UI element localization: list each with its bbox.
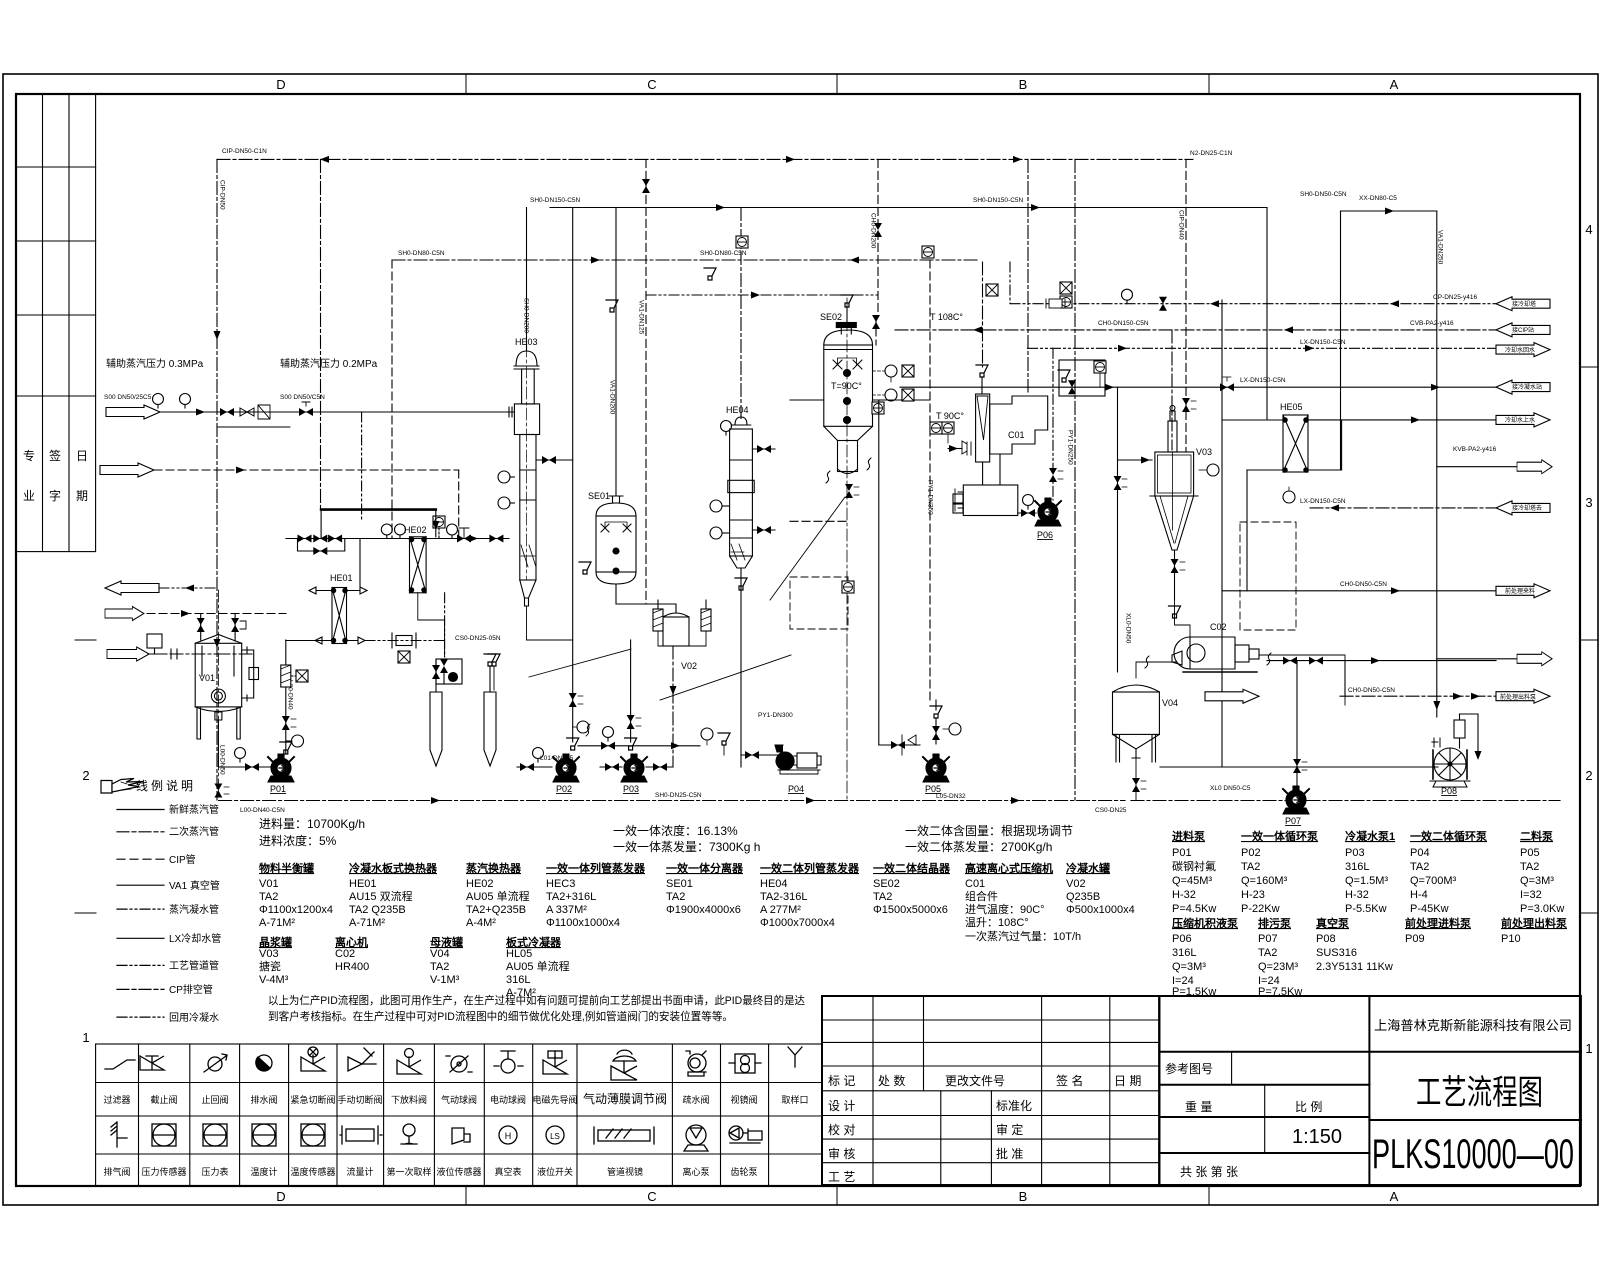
svg-text:前处理来料: 前处理来料 xyxy=(1505,587,1535,595)
svg-text:Φ1000x7000x4: Φ1000x7000x4 xyxy=(760,917,835,929)
wire HE04 bottom drain xyxy=(740,568,742,590)
svg-text:温度传感器: 温度传感器 xyxy=(290,1166,335,1177)
valve on y387 right xyxy=(1220,383,1234,391)
equipment spec columns row 1 xyxy=(259,861,1135,943)
pump P06 xyxy=(1035,498,1061,526)
svg-text:签 名: 签 名 xyxy=(1056,1073,1083,1088)
legend symbol table bottom left xyxy=(96,1044,822,1186)
small box near flag xyxy=(147,634,162,648)
gauges on HE03 left xyxy=(498,471,510,483)
flag out y507.9 xyxy=(1496,501,1550,515)
valve on V01 feed 2 xyxy=(231,618,239,632)
steam PRV station line y538.5 xyxy=(286,538,509,540)
svg-text:冷凝水罐: 冷凝水罐 xyxy=(1066,861,1110,875)
svg-text:LS: LS xyxy=(550,1132,560,1141)
svg-text:批 准: 批 准 xyxy=(996,1146,1023,1161)
svg-text:VA1-DN125: VA1-DN125 xyxy=(638,300,645,335)
rotameter right of V02 xyxy=(701,609,711,631)
svg-text:辅助蒸汽压力 0.3MPa: 辅助蒸汽压力 0.3MPa xyxy=(106,357,204,370)
svg-text:冷凝水泵1: 冷凝水泵1 xyxy=(1345,829,1395,843)
svg-text:V02: V02 xyxy=(1066,878,1086,890)
valve on HE03 right outlet xyxy=(536,459,573,461)
wire P03 riser xyxy=(630,640,632,742)
discharge flag under C02 xyxy=(1205,689,1259,703)
gauges HE04 left xyxy=(710,500,722,512)
svg-text:期: 期 xyxy=(76,489,88,503)
signature table left xyxy=(16,94,96,552)
valve on V01 feed 1 xyxy=(197,618,205,632)
pump spec columns row 2 xyxy=(100,148,1567,998)
bottom main bus dash-dot xyxy=(219,800,1560,802)
wire HE05 bottom line xyxy=(1246,470,1248,591)
svg-text:P08: P08 xyxy=(1441,786,1457,796)
PRV bypass loop xyxy=(298,539,345,552)
svg-text:冷凝水板式换热器: 冷凝水板式换热器 xyxy=(349,861,438,875)
svg-text:离心泵: 离心泵 xyxy=(682,1166,709,1177)
wire HE01 bottom left port to P01 riser xyxy=(286,637,332,644)
instruments right of SE02 xyxy=(885,365,897,377)
thick steam branch xyxy=(321,508,436,511)
svg-text:SE01: SE01 xyxy=(588,491,610,501)
sym pressure gauge xyxy=(401,1124,417,1144)
svg-text:V01: V01 xyxy=(259,878,279,890)
svg-text:接CIP站: 接CIP站 xyxy=(1512,326,1534,334)
svg-text:P02: P02 xyxy=(556,784,572,794)
svg-text:H-32: H-32 xyxy=(1345,889,1369,901)
svg-text:设 计: 设 计 xyxy=(828,1099,855,1113)
svg-text:P=4.5Kw: P=4.5Kw xyxy=(1172,903,1216,915)
zone tick marks left xyxy=(75,639,96,641)
svg-text:前处理出料泵: 前处理出料泵 xyxy=(1500,693,1536,701)
svg-text:新鲜蒸汽管: 新鲜蒸汽管 xyxy=(169,803,219,816)
svg-text:HE04: HE04 xyxy=(760,878,788,890)
wire vertical x1172 upper xyxy=(1171,330,1173,450)
pump P03 xyxy=(621,754,647,782)
svg-text:H-4: H-4 xyxy=(1410,889,1428,901)
zone tick marks top/bottom xyxy=(465,74,467,94)
svg-text:VA1-DN250: VA1-DN250 xyxy=(1437,230,1444,265)
svg-text:Q235B: Q235B xyxy=(1066,891,1100,903)
line legend rows xyxy=(117,810,164,1018)
svg-text:TA2: TA2 xyxy=(259,891,278,903)
suction header y745.8 xyxy=(578,745,700,747)
svg-text:SH0-DN80-C5N: SH0-DN80-C5N xyxy=(398,250,445,257)
separator SE01 xyxy=(596,496,636,584)
svg-text:V02: V02 xyxy=(681,661,697,671)
svg-text:A: A xyxy=(1390,1189,1399,1204)
wire drop x458 xyxy=(458,470,460,539)
wire P03 discharge right xyxy=(646,766,673,768)
right flag line y303.7 xyxy=(1010,262,1496,304)
svg-text:SE02: SE02 xyxy=(873,878,900,890)
svg-text:HE01: HE01 xyxy=(330,573,353,583)
pump P05 xyxy=(923,754,949,782)
wire line y660 with valves xyxy=(1267,660,1496,662)
svg-text:T 90C°: T 90C° xyxy=(936,411,964,421)
instrument square xyxy=(433,516,445,528)
flow meter on riser xyxy=(281,665,291,687)
svg-text:紧急切断阀: 紧急切断阀 xyxy=(290,1094,335,1105)
wire P07 riser to y660 xyxy=(1296,661,1298,786)
sym circle LS xyxy=(546,1126,564,1144)
svg-text:SE01: SE01 xyxy=(666,878,693,890)
svg-text:HEC3: HEC3 xyxy=(546,878,575,890)
svg-text:TA2+316L: TA2+316L xyxy=(546,891,596,903)
svg-text:AU05 单流程: AU05 单流程 xyxy=(466,889,530,903)
right area lower bus xyxy=(1160,766,1438,768)
wire vapour link y295 xyxy=(646,294,878,296)
disclaimer paragraph xyxy=(268,993,805,1023)
wire SE01 bottom to V02 xyxy=(616,584,676,612)
flow meter on y640 xyxy=(392,633,416,648)
wire SE01 riser xyxy=(615,208,617,497)
svg-text:A 277M²: A 277M² xyxy=(760,904,801,916)
svg-text:压缩机积液泵: 压缩机积液泵 xyxy=(1172,916,1238,930)
svg-text:一效二体列管蒸发器: 一效二体列管蒸发器 xyxy=(760,861,860,875)
right flag line y466.7 xyxy=(1437,466,1517,468)
wire HE02 bottom drain xyxy=(418,593,445,657)
svg-text:蒸汽凝水管: 蒸汽凝水管 xyxy=(169,903,219,916)
bottom bus arrows xyxy=(806,797,815,804)
centrifuge C02 xyxy=(1172,637,1259,672)
svg-text:下放料阀: 下放料阀 xyxy=(391,1094,427,1105)
svg-text:管道视镜: 管道视镜 xyxy=(607,1166,643,1177)
svg-text:HE04: HE04 xyxy=(726,405,749,415)
wire feed dashed y470 xyxy=(154,469,459,471)
wire drop x878 xyxy=(877,159,879,316)
valve drain V01 xyxy=(214,784,222,798)
svg-text:工艺管道管: 工艺管道管 xyxy=(169,959,219,972)
svg-text:P03: P03 xyxy=(623,784,639,794)
svg-text:Φ1500x5000x6: Φ1500x5000x6 xyxy=(873,904,948,916)
valve below V03 xyxy=(1174,550,1176,600)
svg-text:HE05: HE05 xyxy=(1280,402,1303,412)
wire junction down x1345 xyxy=(1344,661,1346,697)
svg-text:到客户考核指标。在生产过程中可对PID流程图中的细节做优化处: 到客户考核指标。在生产过程中可对PID流程图中的细节做优化处理,例如管道阀门的安… xyxy=(268,1009,733,1023)
sym check valve xyxy=(204,1054,227,1072)
svg-text:TA2: TA2 xyxy=(666,891,685,903)
crystallizer SE02 xyxy=(824,295,873,474)
sym diaphragm pump xyxy=(684,1125,708,1151)
svg-text:LX-DN150-C5N: LX-DN150-C5N xyxy=(1300,339,1346,346)
svg-text:比 例: 比 例 xyxy=(1295,1100,1322,1114)
svg-text:回用冷凝水: 回用冷凝水 xyxy=(169,1011,219,1024)
svg-text:T 108C°: T 108C° xyxy=(930,312,963,322)
svg-text:SH0-DN150-C5N: SH0-DN150-C5N xyxy=(530,197,581,204)
valve on P02 riser xyxy=(569,693,577,707)
svg-text:CH0-DN200: CH0-DN200 xyxy=(870,213,877,249)
wire HE01 bottom right port xyxy=(347,637,366,644)
rotameter left of V02 xyxy=(653,609,663,631)
flag out y329.9 xyxy=(1496,323,1550,337)
flag in y419.9 xyxy=(1496,413,1550,427)
sym plug valve xyxy=(494,1051,523,1073)
arrows on right lines xyxy=(1210,300,1219,307)
svg-text:H-32: H-32 xyxy=(1172,889,1196,901)
svg-text:进料泵: 进料泵 xyxy=(1172,829,1205,843)
sym flow meter xyxy=(340,1126,382,1144)
svg-text:P05: P05 xyxy=(1520,847,1540,859)
instrument below SE02 outlet xyxy=(842,581,854,593)
valve on suction P01 xyxy=(245,763,259,771)
wire HE05 right loop xyxy=(1308,420,1342,470)
svg-text:一次蒸汽过气量：10T/h: 一次蒸汽过气量：10T/h xyxy=(965,929,1081,943)
legend row1 symbols xyxy=(105,1047,802,1080)
svg-text:线例说明: 线例说明 xyxy=(136,778,196,793)
svg-text:Q=700M³: Q=700M³ xyxy=(1410,875,1456,887)
wire V01 top feeds xyxy=(201,614,235,642)
svg-text:排污泵: 排污泵 xyxy=(1258,916,1291,930)
flag texts xyxy=(104,300,1542,701)
flag out y387.1 xyxy=(1496,380,1550,394)
process data text: feed xyxy=(259,817,1073,854)
sym pump with motor xyxy=(729,1126,762,1143)
wire P05 suction xyxy=(878,400,880,745)
svg-text:排水阀: 排水阀 xyxy=(250,1094,277,1105)
wire outlet dash y588 xyxy=(159,587,217,589)
svg-text:更改文件号: 更改文件号 xyxy=(945,1073,1005,1088)
sym reducer xyxy=(105,1060,135,1069)
svg-text:搪瓷: 搪瓷 xyxy=(259,959,281,973)
svg-text:Φ500x1000x4: Φ500x1000x4 xyxy=(1066,904,1135,916)
wire drop x1075 xyxy=(1074,159,1076,800)
svg-text:Φ1100x1200x4: Φ1100x1200x4 xyxy=(259,904,333,916)
wire feed line y412 xyxy=(160,411,514,413)
right flag line y696.2 xyxy=(1340,695,1517,697)
fittings on y303 line xyxy=(1046,299,1065,308)
svg-text:SE02: SE02 xyxy=(820,312,842,322)
valve with actuator xyxy=(457,535,471,543)
valve on riser xyxy=(282,716,290,730)
svg-text:P-22Kw: P-22Kw xyxy=(1241,903,1280,915)
wire vertical x737 top xyxy=(740,208,742,420)
wire P06 riser xyxy=(1052,348,1054,500)
svg-text:A: A xyxy=(1390,77,1399,92)
pump P04 with motor xyxy=(775,745,821,774)
svg-text:2.3Y5131 11Kw: 2.3Y5131 11Kw xyxy=(1316,961,1393,973)
svg-text:TA2: TA2 xyxy=(1241,861,1260,873)
flag feed2 y470 xyxy=(100,463,154,477)
svg-text:SH0-DN80-C5N: SH0-DN80-C5N xyxy=(700,250,747,257)
svg-text:C01: C01 xyxy=(965,878,985,890)
right flag line y349.6 xyxy=(1028,347,1497,349)
svg-text:C: C xyxy=(647,77,656,92)
wire steam header solid xyxy=(550,207,1267,209)
svg-text:Φ1100x1000x4: Φ1100x1000x4 xyxy=(546,917,620,929)
svg-text:PY1-DN350: PY1-DN350 xyxy=(927,480,934,515)
svg-text:LX-DN150-C5N: LX-DN150-C5N xyxy=(1300,498,1346,505)
wire drop x320 steam supply xyxy=(320,159,322,509)
svg-text:V01: V01 xyxy=(199,673,215,683)
svg-text:共 张 第 张: 共 张 第 张 xyxy=(1180,1165,1238,1179)
instrument pair left of C01 inlet xyxy=(930,422,942,434)
svg-text:电动球阀: 电动球阀 xyxy=(490,1094,526,1105)
funnel P05 xyxy=(930,706,942,718)
gauge pair on steam line xyxy=(381,524,392,539)
svg-text:PY1-DN250: PY1-DN250 xyxy=(1067,430,1074,465)
svg-text:视镜阀: 视镜阀 xyxy=(730,1094,757,1105)
svg-text:一效一体浓度：16.13%: 一效一体浓度：16.13% xyxy=(613,823,738,838)
sym gear pump xyxy=(729,1054,761,1073)
drain arrow 1 xyxy=(430,692,442,766)
sym vent pole xyxy=(111,1122,127,1147)
flag out y588 xyxy=(105,581,159,595)
svg-text:高速离心式压缩机: 高速离心式压缩机 xyxy=(965,861,1053,875)
svg-text:上海普林克斯新能源科技有限公司: 上海普林克斯新能源科技有限公司 xyxy=(1374,1018,1572,1033)
svg-text:XL0 DN50-C5: XL0 DN50-C5 xyxy=(1210,785,1251,792)
sym pneumatic valve X xyxy=(301,1047,325,1071)
right flag line y507.9 xyxy=(1310,507,1496,509)
funnel above P01 xyxy=(280,742,292,754)
svg-text:冷却水上水: 冷却水上水 xyxy=(1505,416,1535,424)
svg-text:HL05: HL05 xyxy=(506,948,532,960)
svg-text:P03: P03 xyxy=(1345,847,1365,859)
diagonal low xyxy=(660,655,791,700)
wire CIP right drop xyxy=(1185,159,1187,452)
valve PRV 3 xyxy=(328,535,342,543)
svg-text:工艺流程图: 工艺流程图 xyxy=(1416,1074,1543,1112)
svg-text:P=7.5Kw: P=7.5Kw xyxy=(1258,986,1302,998)
svg-text:D: D xyxy=(276,77,285,92)
svg-text:参考图号: 参考图号 xyxy=(1165,1061,1213,1076)
check valve sym near P05 xyxy=(902,735,916,755)
valve on V04 drain xyxy=(1135,758,1137,801)
wire drop x361 xyxy=(361,412,363,520)
svg-text:TA2: TA2 xyxy=(430,961,449,973)
sym sight flag xyxy=(452,1128,470,1144)
svg-text:校 对: 校 对 xyxy=(828,1122,855,1137)
svg-text:HE02: HE02 xyxy=(404,525,427,535)
column HE04 xyxy=(728,417,754,568)
svg-text:齿轮泵: 齿轮泵 xyxy=(730,1166,757,1177)
zone tick marks right xyxy=(1580,366,1598,368)
sym steam trap pump xyxy=(686,1051,706,1076)
flag in y466.7 xyxy=(1517,460,1552,474)
svg-text:CP-DN25-y416: CP-DN25-y416 xyxy=(1433,294,1477,301)
right flag line y590.8 xyxy=(1222,590,1496,592)
svg-text:接冷却塔去: 接冷却塔去 xyxy=(1512,504,1542,512)
crystallizer V03 xyxy=(1150,406,1198,551)
svg-text:P08: P08 xyxy=(1316,933,1336,945)
svg-text:A 337M²: A 337M² xyxy=(546,904,587,916)
svg-text:1:150: 1:150 xyxy=(1292,1126,1342,1148)
svg-text:1: 1 xyxy=(1585,1041,1592,1056)
svg-text:流量计: 流量计 xyxy=(346,1166,373,1177)
svg-text:P01: P01 xyxy=(270,784,286,794)
wire SE02 right vapor xyxy=(873,399,931,401)
svg-text:Q=3M³: Q=3M³ xyxy=(1520,875,1554,887)
vacuum pump P08 xyxy=(1430,714,1482,787)
dashed zone box under SE02 xyxy=(790,577,848,629)
svg-text:以上为仁产PID流程图，此图可用作生产，在生产过程中如有问题: 以上为仁产PID流程图，此图可用作生产，在生产过程中如有问题可提前向工艺部提出书… xyxy=(268,993,805,1007)
svg-text:V04: V04 xyxy=(1162,698,1178,708)
svg-text:KVB-PA2-y416: KVB-PA2-y416 xyxy=(1453,446,1497,453)
sym pipe sight glass xyxy=(594,1127,654,1144)
svg-text:液位传感器: 液位传感器 xyxy=(436,1166,481,1177)
svg-text:前处理进料泵: 前处理进料泵 xyxy=(1405,916,1471,930)
svg-text:过滤器: 过滤器 xyxy=(103,1094,130,1105)
funnel above P03 xyxy=(625,738,637,750)
svg-text:TA2: TA2 xyxy=(1258,947,1277,959)
svg-text:专: 专 xyxy=(23,448,35,463)
wire steam header right drops xyxy=(1266,208,1268,420)
svg-text:AU05 单流程: AU05 单流程 xyxy=(506,959,570,973)
svg-text:标 记: 标 记 xyxy=(828,1074,855,1088)
svg-text:晶浆罐: 晶浆罐 xyxy=(259,935,292,949)
svg-text:N2-DN25-C1N: N2-DN25-C1N xyxy=(1190,150,1233,157)
svg-text:截止阀: 截止阀 xyxy=(150,1094,177,1105)
svg-text:接冷凝水站: 接冷凝水站 xyxy=(1512,383,1542,391)
inlet flange C01 xyxy=(962,441,971,455)
valve SE02 outlet xyxy=(845,484,853,498)
svg-text:一效一体蒸发量：7300Kg h: 一效一体蒸发量：7300Kg h xyxy=(613,839,760,854)
svg-text:重 量: 重 量 xyxy=(1185,1100,1212,1114)
sym ball valve half filled xyxy=(256,1055,272,1071)
svg-text:压力传感器: 压力传感器 xyxy=(141,1166,186,1177)
tank V04 xyxy=(1113,685,1160,762)
svg-text:B: B xyxy=(1019,1189,1028,1204)
svg-text:A-4M²: A-4M² xyxy=(466,917,496,929)
wire drop x392 xyxy=(391,260,393,539)
svg-text:CH0-DN150-C5N: CH0-DN150-C5N xyxy=(1098,320,1149,327)
wire P01 riser xyxy=(285,640,287,753)
svg-text:手动切断阀: 手动切断阀 xyxy=(337,1094,382,1105)
svg-text:C01: C01 xyxy=(1008,430,1025,440)
svg-text:AU15 双流程: AU15 双流程 xyxy=(349,889,413,903)
svg-text:L00-DN50: L00-DN50 xyxy=(219,745,226,775)
svg-text:CIP-DN40: CIP-DN40 xyxy=(1178,210,1185,240)
svg-text:板式冷凝器: 板式冷凝器 xyxy=(506,935,562,949)
sym diaphragm control valve xyxy=(611,1050,637,1080)
gauge near P02 riser xyxy=(577,721,589,733)
drain arrow 2 xyxy=(484,692,496,766)
wire P03 suction xyxy=(600,766,622,768)
svg-text:CP排空管: CP排空管 xyxy=(169,983,213,996)
gauge P05 xyxy=(949,723,961,735)
wire outlet flag from C02 xyxy=(1259,655,1345,705)
svg-text:CS0-DN25-05N: CS0-DN25-05N xyxy=(455,635,501,642)
svg-text:辅助蒸汽压力 0.2MPa: 辅助蒸汽压力 0.2MPa xyxy=(280,357,378,370)
svg-text:SH0-DN150-C5N: SH0-DN150-C5N xyxy=(973,197,1024,204)
valve PRV 1 xyxy=(298,535,312,543)
svg-text:A-71M²: A-71M² xyxy=(349,917,385,929)
svg-text:I=32: I=32 xyxy=(1520,889,1542,901)
wire V03 to C02 xyxy=(1175,600,1191,637)
flag in y613.5 xyxy=(105,607,144,621)
wire suction P02 xyxy=(517,766,552,768)
wire V01 bottom to P01 xyxy=(218,720,270,767)
svg-text:3: 3 xyxy=(1585,495,1592,510)
svg-text:Q=23M³: Q=23M³ xyxy=(1258,961,1298,973)
wire C02 to V04 xyxy=(1136,662,1177,678)
svg-text:L00-DN40-C5N: L00-DN40-C5N xyxy=(240,807,285,814)
wire V03 feed drop xyxy=(1117,387,1119,672)
valve above drain1 xyxy=(432,665,440,679)
svg-text:P05: P05 xyxy=(925,784,941,794)
svg-text:疏水阀: 疏水阀 xyxy=(682,1094,709,1105)
pump P02 xyxy=(553,754,579,782)
funnel above P02 xyxy=(567,738,579,750)
H union on P08 inlet xyxy=(1432,738,1440,747)
svg-text:组合件: 组合件 xyxy=(965,889,998,903)
svg-text:TA2+Q235B: TA2+Q235B xyxy=(466,904,526,916)
svg-text:一效二体结晶器: 一效二体结晶器 xyxy=(873,861,951,875)
valves on feed line xyxy=(220,408,234,416)
heat exchanger HE01 xyxy=(331,588,347,644)
svg-text:V04: V04 xyxy=(430,948,450,960)
centerline V01 xyxy=(217,590,219,800)
sym ball top valve xyxy=(397,1049,421,1075)
